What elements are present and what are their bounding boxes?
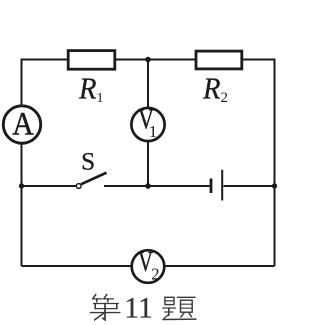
resistor R2: [196, 51, 242, 69]
wire: middle rail center (switch to battery): [104, 185, 210, 187]
wire: middle rail left (left rail to switch): [22, 185, 77, 187]
battery BT1 positive plate (long): [221, 170, 223, 201]
svg-text:1: 1: [97, 91, 104, 106]
svg-text:A: A: [12, 106, 34, 142]
svg-text:R: R: [202, 70, 220, 105]
switch S pivot: [76, 184, 81, 189]
resistor R1: [68, 51, 115, 70]
wire: bottom rail left (corner to V2): [22, 265, 133, 267]
caption: character 题: [163, 297, 196, 319]
node: junction top rail / V1 lead: [145, 57, 151, 63]
wire: right rail: [274, 60, 276, 267]
svg-text:2: 2: [151, 264, 159, 283]
node: junction middle rail / V1 lead: [145, 183, 151, 189]
wire: top rail middle segment (R1 to R2): [116, 59, 195, 61]
switch S lever: [81, 173, 106, 185]
voltmeter V2: [132, 250, 165, 283]
voltmeter V1: [131, 108, 164, 141]
node: junction left rail / middle rail: [19, 183, 24, 188]
svg-text:1: 1: [149, 122, 158, 141]
svg-text:S: S: [81, 149, 95, 176]
node: junction right rail / middle rail: [272, 183, 277, 188]
svg-text:2: 2: [221, 90, 229, 106]
svg-text:R: R: [78, 70, 96, 105]
wire: voltmeter V1 bottom lead: [147, 141, 149, 187]
svg-text:11: 11: [124, 292, 152, 324]
wire: voltmeter V1 top lead: [147, 60, 149, 109]
wire: middle rail right (battery to right rail): [224, 185, 275, 187]
battery BT1 negative plate (short): [210, 179, 213, 194]
caption: character 第: [91, 295, 120, 320]
wire: left rail lower (ammeter to bottom-left corner): [21, 143, 23, 267]
wire: left rail upper (corner down to ammeter): [21, 60, 23, 107]
wire: top rail right segment (R2 to top-right corner): [243, 60, 275, 62]
wire: bottom rail right (V2 to corner): [164, 265, 275, 267]
wire: top rail left segment (corner to R1): [22, 60, 69, 61]
ammeter U1: [3, 106, 40, 143]
